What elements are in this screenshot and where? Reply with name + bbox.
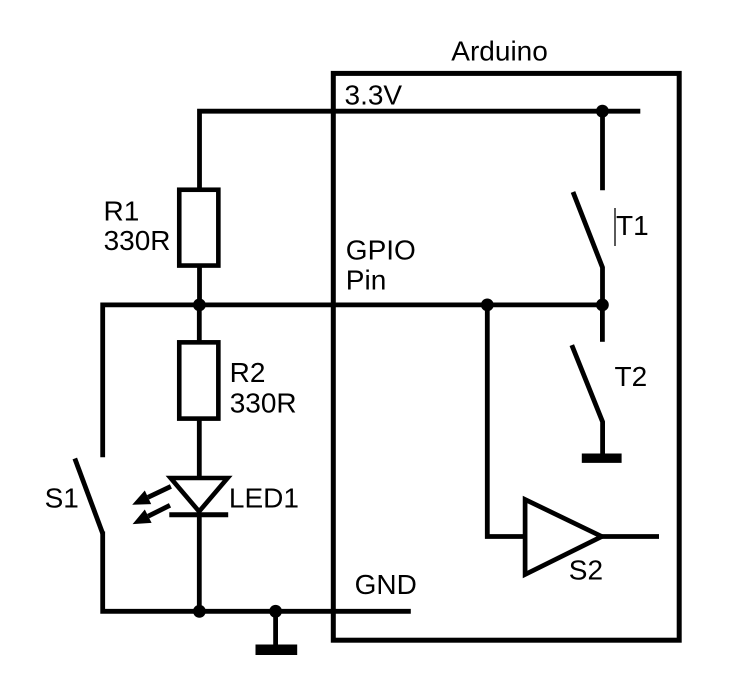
- svg-text:S1: S1: [45, 483, 79, 514]
- svg-text:GND: GND: [355, 569, 417, 600]
- svg-text:T2: T2: [615, 361, 648, 392]
- svg-text:GPIO: GPIO: [346, 235, 416, 266]
- svg-text:Arduino: Arduino: [451, 36, 548, 67]
- svg-text:330R: 330R: [230, 388, 297, 419]
- svg-text:S2: S2: [569, 555, 603, 586]
- svg-text:T1: T1: [616, 210, 649, 241]
- svg-text:LED1: LED1: [229, 483, 299, 514]
- svg-text:330R: 330R: [104, 225, 171, 256]
- svg-text:R1: R1: [104, 196, 140, 227]
- svg-text:3.3V: 3.3V: [345, 80, 403, 111]
- svg-text:R2: R2: [230, 357, 266, 388]
- svg-text:Pin: Pin: [346, 264, 386, 295]
